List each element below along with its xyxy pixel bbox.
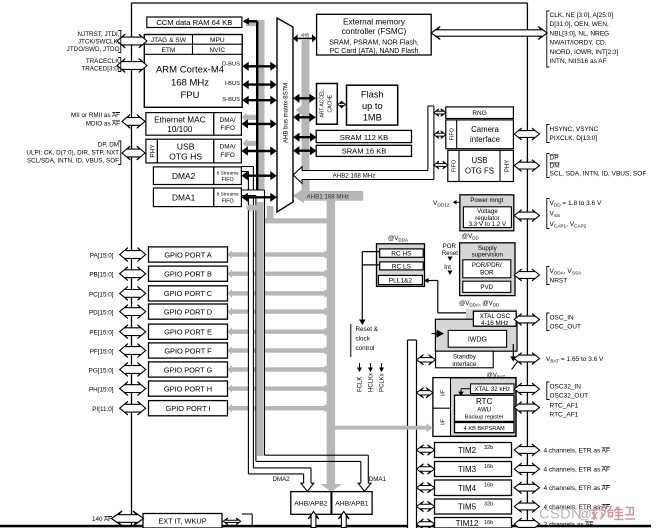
arrow AHB2 to camera FIFO	[434, 131, 446, 139]
arrow MII RMII pins	[122, 115, 145, 129]
svg-text:TIM2: TIM2	[458, 446, 477, 455]
block backup domain	[433, 378, 516, 437]
svg-text:AWU: AWU	[477, 407, 491, 413]
block USB OTG FS	[448, 150, 514, 181]
bottom cut line	[0, 525, 651, 528]
svg-text:DMA2: DMA2	[172, 171, 196, 181]
svg-text:Reset: Reset	[442, 250, 458, 257]
block AHB bus matrix	[277, 18, 293, 212]
svg-text:NJTRST, JTDI,: NJTRST, JTDI,	[78, 31, 120, 38]
svg-text:FIFO: FIFO	[450, 128, 456, 140]
wire AHB2 peripheral channel (hollow)	[302, 171, 434, 180]
svg-text:FPU: FPU	[181, 90, 200, 101]
svg-text:4 channels, ETR as AF: 4 channels, ETR as AF	[544, 448, 611, 455]
gray bus behind ART arrows	[302, 40, 310, 195]
svg-text:RTC_AF1: RTC_AF1	[550, 412, 579, 419]
svg-text:CCM data RAM 64 KB: CCM data RAM 64 KB	[156, 18, 232, 27]
svg-text:SRAM 16 KB: SRAM 16 KB	[342, 147, 387, 156]
arrow OSC pins	[514, 314, 539, 326]
svg-text:168 MHz: 168 MHz	[171, 78, 209, 89]
arrow DMA1 to matrix	[247, 196, 271, 198]
svg-text:DMA2: DMA2	[273, 476, 291, 483]
svg-text:TRACECLK: TRACECLK	[86, 58, 120, 65]
arrow VDDA NRST pins	[514, 269, 539, 281]
wire EXT IT hook	[242, 513, 252, 515]
gray bus into USB OTG HS FIFO	[247, 141, 265, 146]
arrow matrix to SRAM 16KB	[299, 149, 312, 151]
block FSMC external memory controller	[317, 14, 432, 55]
svg-text:PVD: PVD	[480, 284, 493, 291]
svg-text:TIM12: TIM12	[456, 519, 479, 528]
svg-text:XTAL 32 kHz: XTAL 32 kHz	[474, 386, 510, 393]
arrow APB to TIM4	[417, 483, 435, 493]
svg-text:AHB1 168 MHz: AHB1 168 MHz	[307, 193, 350, 200]
arrow GPIO port F pins	[120, 344, 146, 358]
svg-text:DP, DM: DP, DM	[98, 142, 119, 149]
block Flash up to 1MB	[347, 85, 398, 125]
block TIM5	[435, 499, 512, 514]
gray bus matrix bottom stub	[267, 206, 274, 219]
svg-text:CACHE: CACHE	[327, 94, 333, 112]
block GPIO PORT I	[149, 401, 228, 416]
svg-text:NVIC: NVIC	[209, 47, 225, 54]
svg-text:I/F: I/F	[440, 390, 446, 396]
svg-text:TRACED[3:0]: TRACED[3:0]	[81, 66, 119, 73]
arrow TIM5 pins	[514, 501, 539, 513]
svg-text:PHY: PHY	[505, 160, 511, 172]
svg-text:TIM4: TIM4	[458, 484, 477, 493]
block GPIO PORT D	[149, 304, 228, 319]
arrow TIM3 pins	[514, 463, 539, 475]
svg-text:32b: 32b	[484, 502, 493, 508]
svg-text:16b: 16b	[484, 464, 493, 470]
block IWDG	[448, 330, 506, 347]
block RNG	[446, 107, 514, 119]
arrow Vreg to VDD12	[456, 201, 460, 203]
svg-text:AHB/APB2: AHB/APB2	[294, 501, 327, 508]
svg-text:POR/PDR/: POR/PDR/	[472, 262, 502, 269]
svg-text:OSC32_IN: OSC32_IN	[550, 384, 582, 391]
block USB HS DMA/FIFO	[214, 139, 242, 163]
gray bus into Ethernet FIFO	[246, 115, 265, 120]
svg-text:GPIO PORT B: GPIO PORT B	[164, 270, 212, 279]
arrow JTAG pins	[117, 34, 147, 48]
labels FCLK HCLKx PCLKx	[357, 368, 362, 373]
svg-text:Flash: Flash	[361, 90, 384, 100]
svg-text:HSYNC, VSYNC: HSYNC, VSYNC	[550, 126, 599, 133]
svg-text:RTC: RTC	[476, 397, 493, 406]
svg-text:NWAIT/IORDY, CD,: NWAIT/IORDY, CD,	[550, 40, 607, 47]
svg-text:BOR: BOR	[480, 269, 494, 276]
arrow Ethernet to matrix	[247, 123, 271, 125]
svg-text:interface: interface	[452, 361, 477, 368]
block TIM4	[435, 480, 512, 496]
block RC oscillators and PLL group	[377, 244, 425, 287]
svg-text:16b: 16b	[484, 483, 493, 489]
svg-text:PHY: PHY	[149, 144, 156, 158]
arrow USB HS to matrix	[247, 150, 271, 152]
block GPIO PORT F	[149, 343, 228, 358]
block TIM3	[435, 462, 512, 477]
svg-text:up to: up to	[362, 101, 383, 111]
arrow FSMC external pins	[431, 26, 547, 39]
svg-text:control: control	[356, 345, 375, 352]
svg-text:OSC32_OUT: OSC32_OUT	[550, 393, 589, 400]
block RTC AWU backup register	[455, 395, 515, 421]
svg-text:ART ACCEL: ART ACCEL	[319, 90, 325, 118]
watermark chinese glyphs	[591, 507, 635, 520]
gray arrow out of DMA1 channel	[250, 205, 264, 211]
svg-text:Reset &: Reset &	[356, 326, 379, 333]
svg-text:DMA1: DMA1	[369, 476, 387, 483]
block ART accelerator cache	[317, 84, 338, 125]
block SRAM 16 KB	[316, 145, 411, 156]
arrow S-bus to matrix	[248, 99, 272, 101]
svg-text:PE[15:0]: PE[15:0]	[89, 330, 113, 337]
arrow USB FS pins	[514, 160, 539, 172]
wire DMA1 path to AHB/APB1 (hollow channel)	[241, 190, 264, 196]
arrow VBAT pin	[514, 353, 539, 365]
block XTAL 32 kHz	[471, 384, 515, 394]
svg-text:MII or RMII as AF: MII or RMII as AF	[71, 112, 120, 119]
arrow GPIO port H pins	[120, 382, 146, 396]
svg-text:supervision: supervision	[472, 252, 504, 259]
svg-text:GPIO PORT G: GPIO PORT G	[164, 365, 213, 374]
block USB OTG HS	[157, 139, 213, 163]
arrow up into AHB/APB1	[338, 512, 349, 528]
block SRAM 112 KB	[316, 130, 411, 142]
arrow up into AHB/APB2	[308, 512, 319, 528]
svg-text:4 KB BKPSRAM: 4 KB BKPSRAM	[464, 426, 505, 432]
wire RC HS to reset clock control	[362, 251, 379, 253]
block GPIO PORT E	[149, 324, 228, 339]
arrow GPIO port E pins	[120, 325, 146, 339]
svg-text:D-BUS: D-BUS	[222, 61, 240, 67]
svg-text:interface: interface	[470, 135, 500, 144]
gray bus horizontal below matrix	[257, 218, 330, 223]
svg-text:Power mngt: Power mngt	[470, 197, 503, 204]
svg-text:USB: USB	[177, 142, 195, 152]
svg-text:FIFO: FIFO	[221, 198, 233, 204]
svg-text:DMA/: DMA/	[220, 144, 236, 151]
block USB OTG HS PHY	[146, 139, 158, 163]
svg-text:GPIO PORT H: GPIO PORT H	[164, 384, 212, 393]
svg-text:140 AF: 140 AF	[92, 516, 112, 523]
svg-text:PC[15:0]: PC[15:0]	[89, 291, 114, 298]
block Ethernet DMA/FIFO	[214, 113, 242, 136]
block Ethernet MAC 10/100	[146, 113, 214, 136]
svg-text:PD[15:0]: PD[15:0]	[89, 310, 114, 317]
svg-text:MDIO as AF: MDIO as AF	[86, 121, 120, 128]
arrow matrix to FSMC	[297, 37, 313, 39]
svg-text:Ethernet MAC: Ethernet MAC	[154, 116, 206, 125]
svg-text:PI[11:0]: PI[11:0]	[92, 406, 113, 413]
svg-text:FCLK: FCLK	[358, 377, 364, 392]
arrow APB to TIM12	[417, 519, 435, 528]
block standby interface	[436, 351, 494, 368]
frame right border	[526, 3, 528, 528]
svg-text:4 channels, ETR as AF: 4 channels, ETR as AF	[544, 467, 611, 474]
svg-text:3.3 V to 1.2 V: 3.3 V to 1.2 V	[469, 221, 507, 228]
arrow camera pins	[514, 128, 539, 140]
arrow TIM4 pins	[514, 482, 539, 494]
svg-text:I/F: I/F	[440, 419, 446, 425]
arrow GPIO port G pins	[120, 363, 146, 377]
svg-text:PB[15:0]: PB[15:0]	[89, 272, 113, 279]
svg-text:DMA/: DMA/	[220, 117, 236, 124]
block TIM12	[435, 518, 512, 528]
svg-text:GPIO PORT A: GPIO PORT A	[164, 250, 211, 259]
svg-text:ETM: ETM	[161, 47, 175, 54]
block XTAL OSC 4-16 MHz	[473, 311, 516, 326]
svg-text:SRAM, PSRAM, NOR Flash,: SRAM, PSRAM, NOR Flash,	[329, 40, 419, 47]
svg-text:FIFO: FIFO	[221, 177, 233, 183]
svg-text:JTCK/SWCLK,: JTCK/SWCLK,	[78, 39, 120, 46]
block AHB/APB2 bridge	[291, 492, 331, 515]
gray arrow DMA1 to backup (over column)	[335, 426, 427, 430]
arrow APB to TIM3	[417, 464, 435, 474]
gray bus inside DMA1 channel	[257, 202, 264, 456]
svg-text:RNG: RNG	[472, 110, 486, 117]
svg-text:TIM3: TIM3	[458, 465, 477, 474]
svg-text:DM: DM	[550, 163, 560, 170]
frame left border	[131, 3, 133, 527]
svg-text:DMA1: DMA1	[172, 193, 196, 203]
svg-text:RC HS: RC HS	[391, 251, 412, 258]
svg-text:16b: 16b	[484, 520, 493, 526]
svg-text:PF[15:0]: PF[15:0]	[90, 348, 114, 355]
svg-text:S-BUS: S-BUS	[222, 97, 240, 103]
svg-text:JTDO/SWD, JTDO: JTDO/SWD, JTDO	[67, 46, 120, 53]
frame top border	[132, 2, 528, 4]
svg-text:@: @	[578, 507, 592, 522]
svg-text:4-16 MHz: 4-16 MHz	[481, 320, 508, 327]
svg-text:Int: Int	[444, 264, 451, 271]
block DMA1	[153, 188, 213, 207]
svg-text:AHB: AHB	[300, 33, 309, 38]
wire DMA2 path to AHB/APB2 (hollow channel)	[241, 167, 253, 172]
label reset and clock control	[350, 324, 352, 357]
block DMA2 FIFO	[214, 167, 242, 185]
arrow into IWDG	[432, 333, 437, 335]
svg-text:FIFO: FIFO	[452, 160, 458, 172]
svg-text:PLL1&2: PLL1&2	[389, 278, 413, 285]
gray GPIO port buses	[231, 252, 325, 256]
svg-text:NBL[3:0], NL, NREG: NBL[3:0], NL, NREG	[550, 30, 610, 37]
svg-text:Standby: Standby	[453, 354, 477, 361]
block TIM2	[435, 443, 512, 458]
svg-text:SCL/SDA, INTN, ID, VBUS, SOF: SCL/SDA, INTN, ID, VBUS, SOF	[27, 158, 119, 165]
svg-text:controller (FSMC): controller (FSMC)	[342, 27, 407, 36]
svg-text:I-BUS: I-BUS	[225, 81, 241, 87]
svg-text:CSDN: CSDN	[539, 507, 582, 523]
svg-text:DP: DP	[550, 155, 559, 162]
svg-text:Backup register: Backup register	[465, 415, 504, 421]
gray bus vertical spine left of matrix	[258, 20, 265, 456]
svg-text:MPU: MPU	[210, 37, 225, 44]
block camera interface	[446, 120, 514, 149]
arrow EXT IT pins	[112, 511, 144, 526]
block DMA1 FIFO	[214, 188, 242, 207]
block supply supervision	[460, 243, 515, 296]
block IWDG group (gray container)	[466, 309, 517, 320]
svg-text:clock: clock	[356, 336, 371, 343]
svg-text:8 Streams: 8 Streams	[217, 191, 239, 197]
svg-text:Camera: Camera	[471, 125, 499, 134]
arrow USB HS ULPI pins	[122, 146, 145, 160]
block EXT IT WKUP	[143, 514, 222, 528]
arrow APB to standby interface	[417, 355, 436, 365]
svg-text:GPIO PORT I: GPIO PORT I	[166, 404, 211, 413]
block GPIO PORT A	[149, 247, 228, 262]
svg-text:D[31:0], OEN, WEN,: D[31:0], OEN, WEN,	[550, 21, 609, 28]
arrow RTC_AF1 pins	[514, 402, 539, 414]
arrow GPIO port I pins	[120, 401, 146, 415]
svg-text:XTAL OSC: XTAL OSC	[480, 313, 511, 320]
svg-text:PC Card (ATA), NAND Flash: PC Card (ATA), NAND Flash	[330, 48, 419, 55]
svg-text:EXT IT, WKUP: EXT IT, WKUP	[158, 517, 206, 526]
arrow matrix to ART lower	[299, 116, 311, 118]
arrow DMA2 to matrix	[247, 174, 271, 176]
arrowhead AHB2 into bus matrix	[293, 167, 302, 184]
block AHB/APB1 bridge	[332, 492, 372, 515]
svg-text:8 Streams: 8 Streams	[217, 170, 239, 176]
arrow D-bus to matrix	[248, 65, 272, 67]
block GPIO PORT G	[149, 362, 228, 377]
svg-text:GPIO PORT E: GPIO PORT E	[164, 328, 212, 337]
arrow AHB2 to RNG	[434, 109, 446, 117]
arrow TIM2 pins	[514, 444, 539, 456]
svg-text:AHB bus matrix-8S7M: AHB bus matrix-8S7M	[283, 83, 290, 143]
svg-text:PCLKx: PCLKx	[380, 373, 386, 392]
svg-text:OSC_OUT: OSC_OUT	[550, 324, 581, 331]
svg-text:1MB: 1MB	[363, 113, 382, 123]
svg-text:PH[15:0]: PH[15:0]	[89, 387, 114, 394]
svg-text:RC LS: RC LS	[392, 263, 412, 270]
arrow EXT IT small	[223, 518, 241, 525]
block DMA2	[153, 167, 213, 185]
wire APB1 bus column	[408, 340, 417, 528]
block GPIO PORT C	[149, 286, 228, 301]
arrow matrix to ART upper	[299, 97, 311, 99]
wire CCM RAM to D-bus	[244, 20, 257, 22]
svg-text:SCL, SDA, INTN, ID, VBUS, SOF: SCL, SDA, INTN, ID, VBUS, SOF	[550, 171, 647, 178]
svg-text:SRAM 112 KB: SRAM 112 KB	[340, 133, 388, 142]
svg-text:CLK, NE [3:0], A[25:0]: CLK, NE [3:0], A[25:0]	[550, 12, 614, 19]
arrow GPIO port A pins	[120, 248, 146, 262]
block CCM data RAM 64 KB	[147, 17, 242, 28]
arrow GPIO port C pins	[120, 287, 146, 301]
svg-text:NRST: NRST	[550, 278, 568, 285]
arrow GPIO port D pins	[120, 305, 146, 319]
block GPIO PORT H	[149, 381, 228, 396]
svg-text:10/100: 10/100	[167, 125, 192, 134]
arrow TIM12 pins	[514, 518, 539, 528]
arrow I-bus to matrix	[248, 83, 272, 85]
svg-text:NIORD, IOWR, INT[2:3]: NIORD, IOWR, INT[2:3]	[550, 49, 619, 56]
arrow APB to TIM5	[417, 501, 435, 511]
svg-text:PA[15:0]: PA[15:0]	[90, 252, 114, 259]
svg-text:AHB/APB1: AHB/APB1	[335, 501, 368, 508]
svg-text:GPIO PORT D: GPIO PORT D	[164, 307, 212, 316]
svg-text:GPIO PORT F: GPIO PORT F	[164, 346, 212, 355]
arrow OSC32 pins	[514, 383, 539, 395]
arrow APB to backup interface	[417, 388, 434, 398]
svg-text:OSC_IN: OSC_IN	[550, 315, 575, 322]
svg-text:ULPI: CK, D(7:0), DIR, STP, NX: ULPI: CK, D(7:0), DIR, STP, NXT	[26, 150, 119, 157]
arrow AHB2 to USB FS FIFO	[434, 161, 448, 169]
svg-text:TIM5: TIM5	[458, 503, 477, 512]
wire XTAL OSC to PLL	[427, 280, 438, 282]
block power management	[460, 195, 514, 231]
block 4KB BKPSRAM	[455, 423, 515, 433]
gray bus AHB1 168 MHz	[303, 191, 363, 201]
svg-text:ARM Cortex-M4: ARM Cortex-M4	[156, 65, 224, 76]
block GPIO PORT B	[149, 266, 228, 281]
block ARM Cortex-M4 CPU	[144, 35, 242, 108]
svg-text:OTG HS: OTG HS	[169, 152, 202, 162]
svg-text:OTG FS: OTG FS	[465, 166, 494, 175]
svg-text:External memory: External memory	[343, 18, 406, 27]
gray bus CCM to D-bus	[246, 20, 265, 26]
arrow APB to TIM2	[417, 445, 435, 455]
svg-text:FIFO: FIFO	[220, 152, 235, 159]
wire XTAL32 to RTC	[461, 388, 471, 390]
svg-text:PIXCLK, D[13:0]: PIXCLK, D[13:0]	[550, 135, 598, 142]
arrow matrix to SRAM 112KB	[299, 136, 312, 138]
svg-text:POR: POR	[443, 243, 457, 250]
svg-text:RTC_AF1: RTC_AF1	[550, 403, 579, 410]
arrow TRACE pins	[117, 59, 147, 73]
svg-text:4 channels, ETR as AF: 4 channels, ETR as AF	[544, 485, 611, 492]
wire VBAT switch	[512, 344, 514, 357]
svg-text:INTN, NIIS16 as AF: INTN, NIIS16 as AF	[550, 58, 607, 65]
svg-text:FIFO: FIFO	[220, 125, 235, 132]
svg-text:HCLKx: HCLKx	[369, 373, 375, 392]
svg-text:USB: USB	[471, 156, 487, 165]
arrow ART to Flash	[338, 101, 346, 108]
svg-text:IWDG: IWDG	[468, 337, 487, 344]
wire RC LS to reset clock control	[362, 264, 379, 266]
svg-text:32b: 32b	[484, 445, 493, 451]
svg-text:JTAG & SW: JTAG & SW	[151, 37, 187, 44]
svg-text:AHB2 168 MHz: AHB2 168 MHz	[333, 173, 376, 180]
svg-text:PG[15:0]: PG[15:0]	[89, 367, 114, 374]
arrow GPIO port B pins	[120, 267, 146, 281]
gray bus DMA1 to backup interface	[333, 426, 428, 430]
arrow VDD pins	[514, 210, 539, 222]
gray bus AHB1 vertical band	[327, 195, 336, 485]
svg-text:GPIO PORT C: GPIO PORT C	[164, 289, 213, 298]
